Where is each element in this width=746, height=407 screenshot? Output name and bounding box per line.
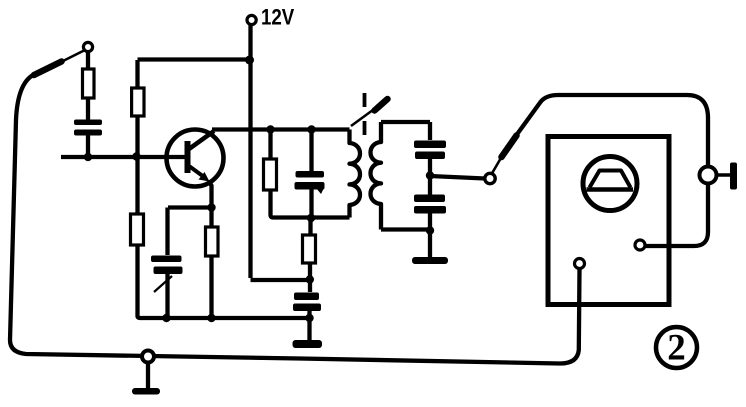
svg-text:2: 2 <box>667 328 686 369</box>
svg-text:12V: 12V <box>261 6 295 30</box>
